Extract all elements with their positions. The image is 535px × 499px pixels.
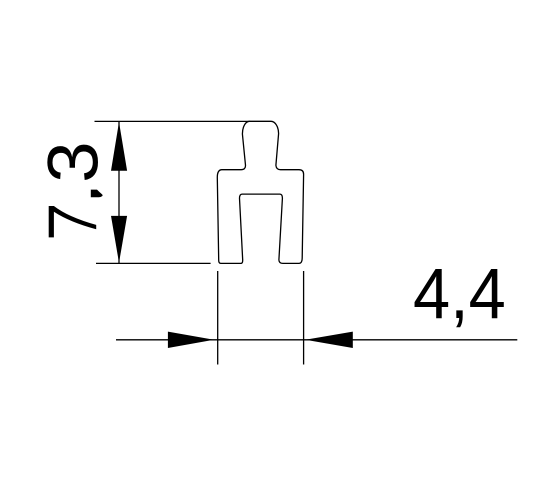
- dimension line horizontal (4,4): [116, 339, 517, 341]
- arrowhead down: [111, 216, 127, 263]
- svg-text:3: 3: [35, 141, 114, 183]
- extension line left (4,4): [217, 271, 219, 365]
- dimension line vertical (7,3): [118, 121, 120, 263]
- arrowhead up: [111, 122, 127, 171]
- arrowhead left: [305, 332, 353, 348]
- comma of 7,3 (custom, rotated): [91, 190, 103, 198]
- dimension text 7,3 : custom glyph 7 (curved leg, rotated): [49, 206, 96, 237]
- svg-text:4,4: 4,4: [413, 254, 506, 333]
- profile outline (extrusion cross-section): [217, 121, 303, 263]
- extension line top (7,3): [95, 120, 251, 122]
- extension line bottom (7,3): [96, 262, 211, 264]
- extension line right (4,4): [303, 271, 305, 365]
- arrowhead right: [168, 332, 214, 348]
